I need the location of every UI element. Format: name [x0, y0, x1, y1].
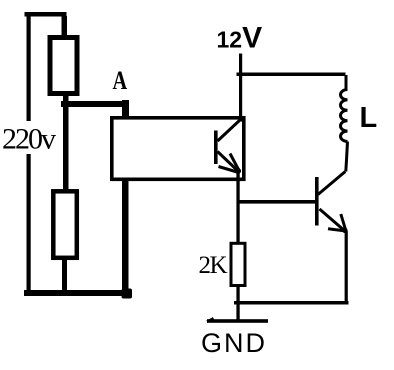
svg-text:220v: 220v: [2, 123, 56, 156]
svg-text:A: A: [113, 67, 128, 96]
svg-text:L: L: [360, 102, 378, 134]
svg-text:GND: GND: [201, 328, 267, 358]
svg-text:2K: 2K: [199, 252, 228, 279]
svg-text:12V: 12V: [217, 22, 263, 55]
